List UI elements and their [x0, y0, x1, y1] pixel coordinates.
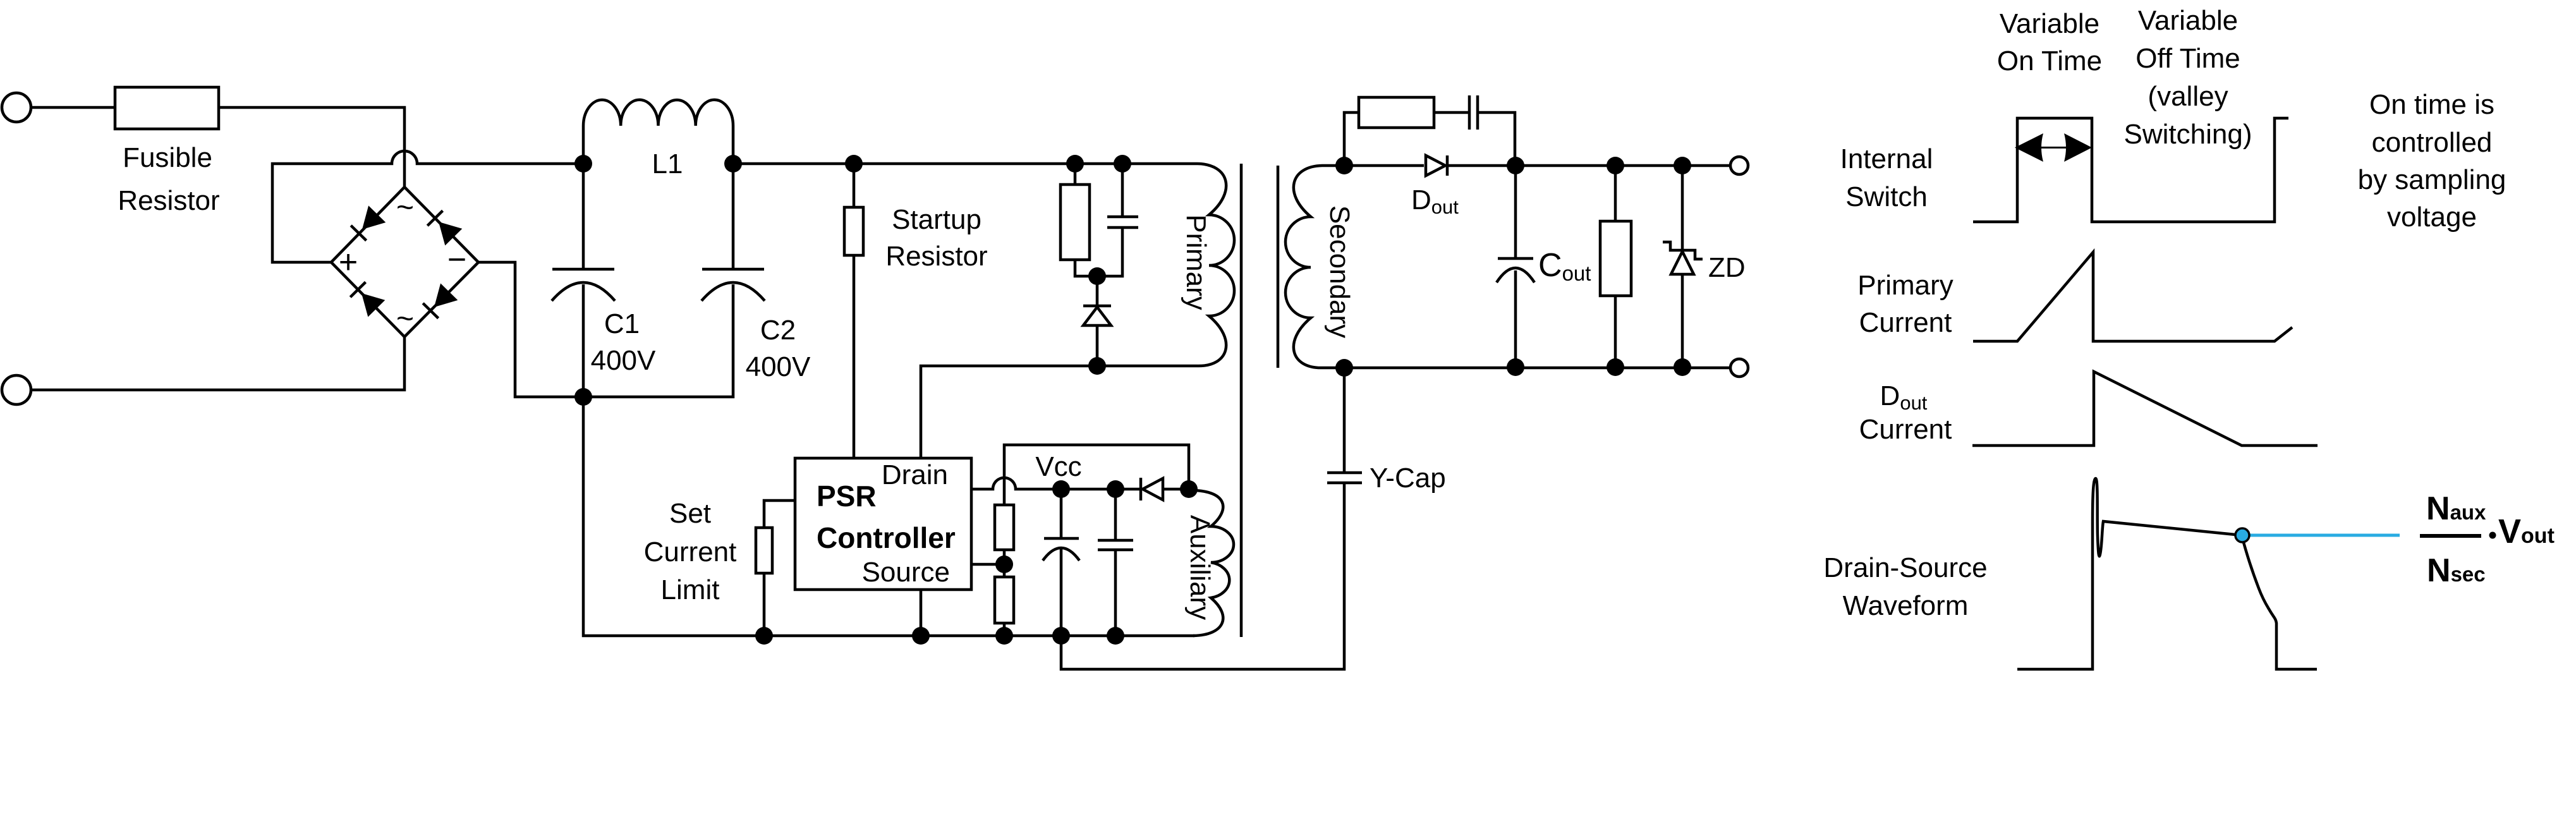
fusible resistor — [115, 87, 219, 129]
divider resistor lower — [995, 577, 1014, 623]
svg-text:Fusible: Fusible — [123, 142, 212, 173]
wire Dout cathode to output node — [1447, 164, 1516, 167]
node load resistor bottom — [1607, 358, 1624, 376]
svg-text:by sampling: by sampling — [2358, 164, 2506, 195]
transformer auxiliary winding — [1189, 489, 1234, 636]
wire DC+ rail L1 to transformer primary — [733, 162, 1198, 166]
svg-text:Controller: Controller — [817, 521, 956, 554]
Vcc cap1 top lead — [1060, 489, 1063, 538]
snubber diode (cathode up) — [1096, 276, 1099, 306]
Y-cap top lead — [1343, 368, 1346, 473]
svg-text:L1: L1 — [652, 149, 683, 179]
primary current waveform — [1973, 252, 2292, 341]
svg-text:On time is: On time is — [2369, 89, 2494, 120]
wire input top to fusible resistor — [30, 106, 115, 109]
primary snubber resistor — [1060, 185, 1090, 260]
node L1 right junction — [724, 155, 742, 173]
PSR controller U1 box — [795, 458, 971, 590]
load resistor — [1600, 221, 1631, 296]
svg-text:Switch: Switch — [1845, 181, 1928, 212]
primary snubber resistor bottom lead — [1075, 260, 1097, 276]
divider bottom lead — [1003, 623, 1006, 636]
node set-limit resistor ground — [755, 627, 773, 645]
svg-text:Limit: Limit — [661, 574, 720, 605]
node primary snubber cap top — [1114, 155, 1131, 173]
transformer core right bar — [1277, 166, 1280, 368]
svg-text:Resistor: Resistor — [885, 241, 987, 272]
wire negative rail down and right (primary ground) — [583, 397, 1194, 636]
svg-text:Auxiliary: Auxiliary — [1184, 515, 1215, 620]
capacitor C2 plates — [702, 268, 764, 271]
svg-text:ZD: ZD — [1708, 252, 1746, 283]
capacitor C1 bottom lead — [582, 284, 585, 397]
node divider midpoint — [995, 555, 1013, 573]
wire bridge + output to DC rail with hop over AC wire — [272, 151, 583, 262]
node ZD bottom — [1674, 358, 1691, 376]
svg-text:Variable: Variable — [2000, 8, 2099, 39]
set current limit resistor — [756, 528, 772, 573]
bridge diode D3 (bottom-left arm, ~ to +) — [361, 293, 385, 317]
svg-text:Current: Current — [644, 537, 737, 567]
primary snubber cap top lead — [1121, 164, 1124, 217]
transformer secondary winding — [1285, 166, 1344, 368]
input terminal bottom — [2, 375, 31, 404]
primary snubber cap plates — [1107, 215, 1138, 219]
capacitor C1 plates — [552, 268, 614, 271]
svg-text:400V: 400V — [746, 351, 811, 382]
capacitor Cout bottom lead — [1514, 270, 1517, 367]
svg-text:C1: C1 — [604, 308, 640, 339]
wire PSR source pin to ground — [920, 590, 923, 636]
capacitor C2 bottom lead — [583, 284, 733, 397]
svg-text:controlled: controlled — [2372, 127, 2493, 158]
svg-text:400V: 400V — [591, 345, 656, 376]
Vcc cap2 top lead — [1114, 489, 1117, 540]
wire bridge bottom to input terminal bottom — [30, 337, 404, 390]
zener ZD top lead — [1681, 166, 1684, 250]
node Vcc cap1 top — [1052, 480, 1070, 498]
svg-text:Current: Current — [1859, 307, 1952, 338]
capacitor Y-Cap plates — [1327, 471, 1362, 475]
inductor L1 — [583, 100, 733, 164]
wire output top rail — [1516, 164, 1730, 167]
svg-text:Primary: Primary — [1181, 214, 1212, 310]
Vcc cap2 bottom lead — [1114, 550, 1117, 636]
node ZD top — [1674, 157, 1691, 174]
svg-text:Vcc: Vcc — [1035, 451, 1081, 482]
Vcc cap2 plates — [1098, 539, 1133, 542]
wire aux sense top rail — [1004, 445, 1189, 505]
secondary snubber resistor — [1359, 97, 1434, 128]
output terminal top — [1730, 157, 1748, 174]
startup resistor — [844, 207, 863, 255]
input terminal top — [2, 93, 31, 122]
wire PSR drain to primary winding bottom — [921, 366, 1198, 458]
load resistor top lead — [1614, 166, 1617, 221]
svg-text:Switching): Switching) — [2124, 119, 2252, 150]
svg-text:Set: Set — [669, 498, 711, 529]
bridge diode D1 (top-left arm, ~ to +) — [362, 205, 386, 229]
Vcc cap1 (polarized) plates — [1044, 537, 1079, 540]
transformer primary winding — [1198, 164, 1234, 366]
svg-text:(valley: (valley — [2148, 81, 2228, 112]
output terminal bottom — [1730, 359, 1748, 377]
node snubber diode to drain wire junction — [1088, 357, 1106, 375]
wire secondary top to Dout anode — [1344, 164, 1424, 167]
primary snubber cap bottom lead — [1097, 227, 1122, 276]
node Cout bottom — [1507, 358, 1524, 376]
sampling point blue dot — [2235, 528, 2249, 542]
capacitor C2 top lead — [732, 164, 735, 269]
wire startup resistor to PSR drain pin — [853, 255, 856, 458]
svg-text:Resistor: Resistor — [118, 185, 219, 216]
svg-text:−: − — [447, 241, 466, 278]
svg-text:~: ~ — [396, 191, 414, 224]
startup resistor top lead — [853, 164, 856, 207]
svg-text:Startup: Startup — [892, 204, 981, 235]
set current limit resistor bottom lead — [763, 573, 766, 636]
load resistor bottom lead — [1614, 296, 1617, 367]
svg-text:~: ~ — [396, 302, 414, 336]
transformer core left bar — [1240, 164, 1243, 637]
divider mid lead — [1003, 550, 1006, 577]
node Vcc cap1 ground — [1052, 627, 1070, 645]
svg-text:+: + — [339, 244, 358, 281]
secondary snubber cap plates — [1468, 95, 1471, 130]
svg-text:Drain: Drain — [882, 459, 948, 490]
secondary snubber resistor to cap wire — [1434, 111, 1469, 114]
drain-source waveform with ringing spike — [2017, 478, 2242, 669]
zener ZD triangle — [1671, 252, 1694, 274]
Y-cap bottom wire to primary ground — [1061, 483, 1344, 669]
svg-text:On Time: On Time — [1997, 45, 2102, 76]
primary snubber resistor top lead — [1074, 164, 1077, 185]
bridge diode D4 (bottom-right arm, - to ~) — [434, 283, 458, 307]
node divider ground — [995, 627, 1013, 645]
svg-text:Y-Cap: Y-Cap — [1370, 463, 1446, 494]
svg-text:PSR: PSR — [817, 480, 877, 513]
node C1 bottom junction — [574, 388, 592, 406]
svg-text:C2: C2 — [760, 315, 796, 346]
divider resistor upper — [995, 505, 1014, 550]
node secondary bottom — [1335, 359, 1353, 377]
svg-text:Variable: Variable — [2138, 5, 2238, 36]
internal switch waveform — [1973, 118, 2288, 222]
svg-text:Off Time: Off Time — [2136, 43, 2240, 74]
aux rectifier diode (cathode left) — [1139, 478, 1143, 500]
svg-text:voltage: voltage — [2387, 202, 2477, 233]
wire bridge - output to negative rail — [478, 262, 583, 397]
capacitor Cout plates — [1498, 257, 1533, 260]
bridge diode D2 (top-right arm, - to ~) — [439, 222, 462, 246]
zener ZD bottom lead — [1681, 274, 1684, 367]
drain-source falling edge after sample point — [2242, 535, 2317, 669]
Dout current waveform — [1972, 372, 2318, 446]
node secondary top — [1335, 157, 1353, 174]
node Vcc cap2 ground — [1107, 627, 1124, 645]
diode Dout — [1426, 155, 1445, 176]
bridge rectifier diamond — [331, 187, 478, 337]
node primary snubber resistor top — [1066, 155, 1084, 173]
capacitor C1 top lead — [582, 164, 585, 269]
node Dout cathode junction — [1507, 157, 1524, 174]
svg-text:Primary: Primary — [1857, 270, 1953, 301]
svg-text:Waveform: Waveform — [1843, 590, 1969, 621]
capacitor Cout top lead — [1514, 166, 1517, 258]
wire output bottom rail — [1344, 367, 1730, 370]
svg-text:Drain-Source: Drain-Source — [1823, 552, 1987, 583]
node PSR source ground — [912, 627, 930, 645]
node snubber RC junction — [1088, 267, 1106, 285]
node C1 top junction — [574, 155, 592, 173]
wire PSR source sense pin to divider midpoint — [971, 563, 1004, 566]
secondary snubber cap to rail wire — [1478, 112, 1515, 166]
node Vcc cap2 top — [1107, 480, 1124, 498]
wire aux diode anode to aux winding top — [1163, 488, 1189, 491]
node aux winding top — [1180, 480, 1198, 498]
Vcc cap1 bottom lead — [1060, 549, 1063, 636]
on-time double arrow — [2040, 147, 2068, 149]
wire fusible resistor to bridge top — [219, 107, 404, 187]
node startup resistor top — [845, 155, 863, 173]
wire PSR Vcc pin with hop over divider — [971, 478, 1141, 489]
zener ZD cathode bar with bent ends — [1663, 242, 1703, 259]
sampling blue line — [2245, 534, 2400, 537]
svg-text:Source: Source — [862, 557, 950, 588]
svg-text:Internal: Internal — [1840, 143, 1933, 174]
node load resistor top — [1607, 157, 1624, 174]
svg-text:Current: Current — [1859, 414, 1952, 445]
secondary snubber wire up — [1344, 112, 1359, 166]
svg-text:Secondary: Secondary — [1324, 205, 1355, 338]
wire PSR left pin to set-current-limit resistor — [764, 500, 795, 528]
